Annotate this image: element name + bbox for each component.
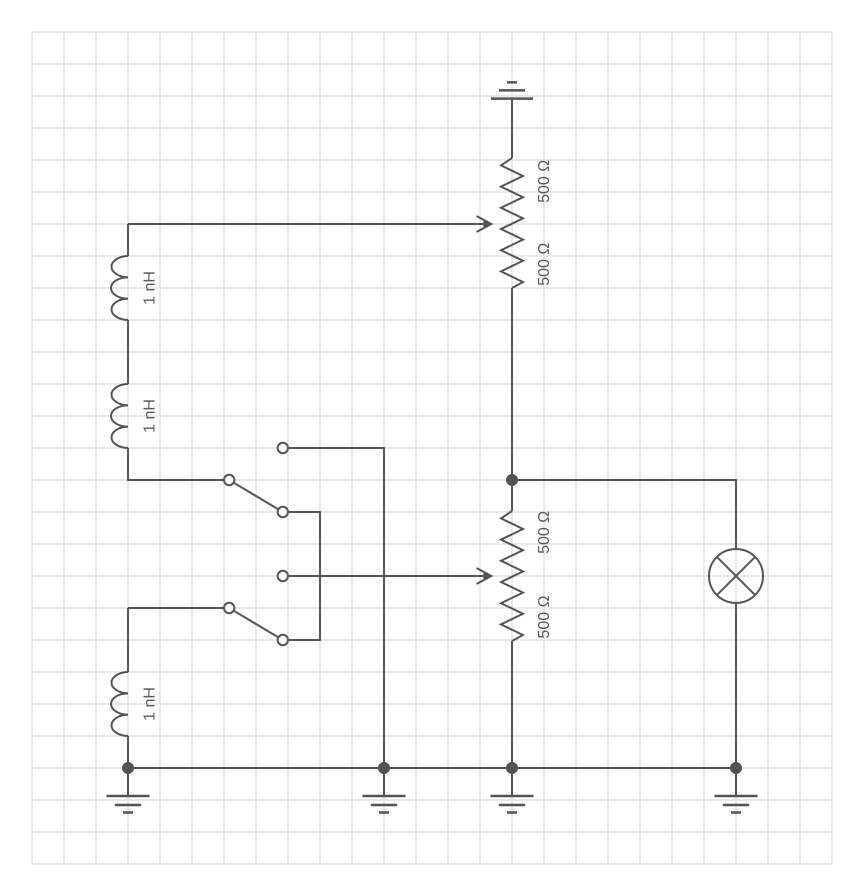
svg-text:500 Ω: 500 Ω (536, 511, 553, 554)
svg-text:1 nH: 1 nH (141, 271, 158, 305)
svg-text:1 nH: 1 nH (141, 399, 158, 433)
svg-text:500 Ω: 500 Ω (536, 243, 553, 286)
svg-text:1 nH: 1 nH (141, 687, 158, 721)
svg-text:500 Ω: 500 Ω (536, 160, 553, 203)
svg-text:500 Ω: 500 Ω (536, 595, 553, 638)
